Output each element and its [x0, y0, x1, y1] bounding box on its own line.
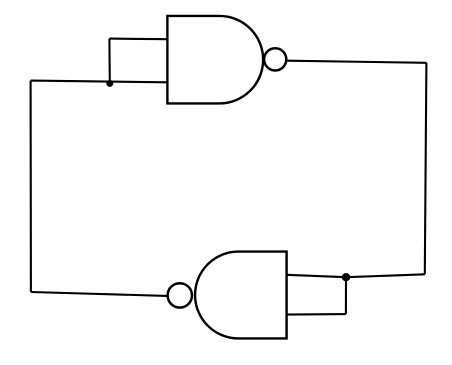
inversion bubble on U2 output: [168, 283, 192, 307]
wire: right rail to U2 upper input: [287, 274, 425, 277]
NAND gate U1 (top, facing right): [167, 16, 263, 104]
NAND gate U2 (bottom, facing left): [195, 252, 287, 339]
wire: U1 input tie loop (vertical): [108, 39, 111, 84]
wire: U1 input tie loop (to upper input): [109, 38, 167, 41]
junction dot at U2 input tie: [342, 273, 350, 281]
wire: U2 input tie loop (to lower input): [287, 313, 346, 316]
wire: U2 input tie loop (vertical): [345, 277, 347, 314]
wire: left vertical rail: [30, 81, 32, 292]
wire: left rail to U1 lower input: [31, 81, 168, 83]
inversion bubble on U1 output: [264, 48, 286, 70]
junction dot at U1 input tie: [106, 80, 113, 87]
wire: U1 output to right rail: [288, 61, 427, 63]
wire: U2 output to left rail: [31, 292, 167, 296]
wire: right vertical rail: [425, 63, 427, 274]
